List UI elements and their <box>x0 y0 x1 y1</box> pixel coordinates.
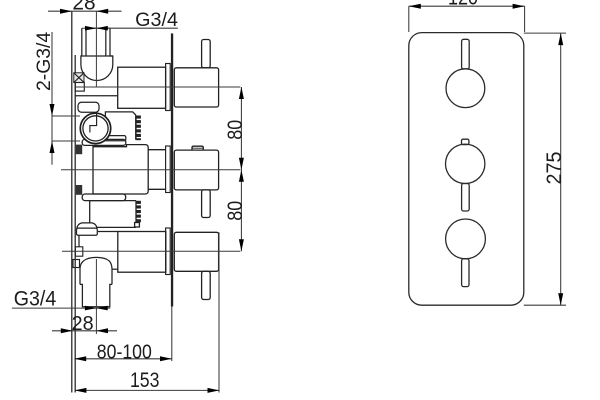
svg-text:28: 28 <box>72 0 95 14</box>
svg-text:120: 120 <box>448 0 478 10</box>
svg-text:G3/4: G3/4 <box>14 288 57 311</box>
svg-text:275: 275 <box>543 152 566 185</box>
svg-text:28: 28 <box>72 312 94 335</box>
svg-text:80: 80 <box>223 201 247 221</box>
svg-text:80: 80 <box>223 120 247 140</box>
svg-text:G3/4: G3/4 <box>135 9 178 31</box>
svg-text:153: 153 <box>130 369 160 392</box>
svg-text:80-100: 80-100 <box>97 341 152 363</box>
